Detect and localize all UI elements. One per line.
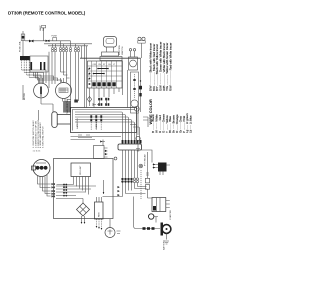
svg-text:FUSE 20A: FUSE 20A bbox=[19, 41, 22, 52]
svg-text:W: W bbox=[88, 74, 90, 76]
svg-text:Lb ···· Lt blue: Lb ···· Lt blue bbox=[189, 115, 193, 133]
svg-text:SWITCH: SWITCH bbox=[122, 46, 124, 55]
svg-text:R/W ·············· Red with Wh: R/W ·············· Red with White tracer bbox=[168, 43, 172, 91]
svg-text:SW: SW bbox=[43, 28, 45, 31]
svg-text:DT30R (REMOTE CONTROL MODEL): DT30R (REMOTE CONTROL MODEL) bbox=[8, 11, 86, 16]
svg-text:FUSE: FUSE bbox=[52, 36, 58, 38]
svg-text:REG: REG bbox=[99, 212, 101, 217]
svg-text:1 2 3 4 5: 1 2 3 4 5 bbox=[33, 151, 42, 153]
svg-text:CDI UNIT: CDI UNIT bbox=[80, 165, 82, 175]
svg-text:IGNITION: IGNITION bbox=[119, 45, 121, 55]
svg-text:5. NEUTRAL SWITCH: 5. NEUTRAL SWITCH bbox=[42, 126, 45, 148]
svg-text:STARTER: STARTER bbox=[169, 210, 172, 220]
svg-text:BATTERY: BATTERY bbox=[163, 240, 166, 250]
svg-text:CABLE: CABLE bbox=[95, 121, 98, 129]
svg-text:TACHOMETER: TACHOMETER bbox=[66, 98, 69, 114]
svg-text:LAMP: LAMP bbox=[39, 25, 42, 31]
svg-text:PTT RELAY: PTT RELAY bbox=[144, 154, 147, 166]
svg-text:METER: METER bbox=[24, 92, 26, 100]
